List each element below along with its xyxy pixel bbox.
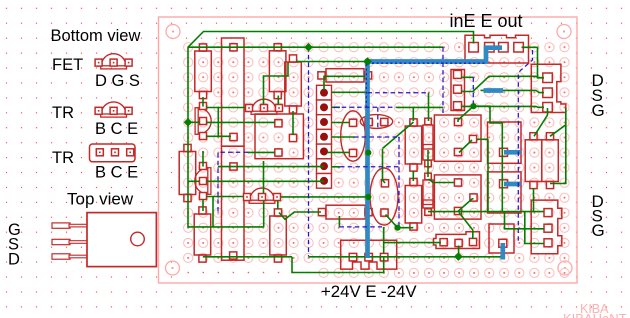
wire diag R10 bbox=[550, 125, 566, 137]
diode D5 bbox=[423, 118, 433, 167]
resistor R6 bbox=[270, 209, 287, 262]
capacitor tall T2 bbox=[222, 146, 245, 260]
wire CN3 pad2 diag bbox=[461, 76, 544, 91]
wire T2-bus167 bbox=[218, 166, 324, 168]
perfboard pad grid bbox=[184, 43, 570, 278]
blue dotted overlay v bbox=[365, 64, 367, 110]
wire blue-diag-R7 bbox=[383, 122, 414, 149]
wire drop R7 bbox=[412, 107, 414, 121]
resistor R1 bbox=[195, 44, 212, 99]
wire blue-capB bbox=[383, 149, 386, 183]
transistor X2 bbox=[488, 172, 522, 213]
wire dots stub4 bbox=[332, 136, 355, 138]
connector CN4 DSG bottom bbox=[531, 200, 562, 254]
junction capB bbox=[395, 225, 401, 231]
board outline bbox=[159, 17, 578, 283]
wire D4 down bbox=[263, 201, 265, 227]
svg-text:B C E: B C E bbox=[95, 164, 138, 182]
junction bus106 bbox=[470, 103, 476, 109]
wire dots stub1 bbox=[332, 91, 368, 93]
mounting hole H3 bbox=[166, 261, 180, 275]
blue trace X3 bbox=[500, 243, 505, 260]
wire bus90 right bbox=[503, 90, 544, 92]
svg-text:D: D bbox=[8, 251, 20, 269]
wire bus3 bbox=[296, 61, 368, 63]
svg-text:G: G bbox=[592, 221, 605, 240]
dashed net 10 bbox=[398, 137, 400, 227]
connector CN2 DSG top bbox=[531, 64, 566, 112]
resistor R9 bbox=[525, 133, 542, 189]
connector CN5 power bbox=[341, 240, 397, 269]
resistor R3 bbox=[285, 55, 302, 113]
junction bus2 bbox=[304, 43, 313, 52]
transistor X3 bbox=[489, 224, 514, 253]
wire to Q-D3 bbox=[202, 151, 204, 167]
wire R6-R12 bbox=[279, 212, 321, 219]
wire Q1-T1 bbox=[207, 135, 232, 137]
wire drop D5 bbox=[428, 93, 430, 121]
svg-text:TR: TR bbox=[52, 149, 74, 167]
wire Q2 base bbox=[188, 180, 199, 182]
ic U1 bbox=[255, 114, 303, 159]
wire CN2-R9 bbox=[534, 108, 548, 136]
wire relayB-HDR1 bbox=[459, 213, 473, 240]
wire IC1 pad1 bbox=[207, 121, 276, 123]
FET bottom-view symbol bbox=[95, 54, 132, 69]
wire bus211 bbox=[428, 211, 544, 213]
wire bottom U bbox=[292, 257, 384, 273]
svg-text:B C E: B C E bbox=[95, 120, 138, 138]
mounting hole H2 bbox=[557, 25, 571, 39]
blue trace stub E bbox=[484, 88, 504, 93]
transistor Q1 bbox=[195, 103, 211, 140]
dashed net 4 bbox=[368, 92, 429, 94]
transistor Q3 bbox=[246, 99, 283, 114]
resistor R5 bbox=[194, 207, 211, 262]
junction blue mid1 bbox=[365, 150, 371, 156]
svg-text:G: G bbox=[592, 101, 605, 120]
wire capB-junction bbox=[386, 215, 414, 228]
junction left bus bbox=[184, 118, 193, 127]
resistor R4 bbox=[179, 144, 196, 201]
dashed net 11 bbox=[518, 50, 532, 243]
dashed net 5 bbox=[334, 106, 396, 108]
wire dots stub6 bbox=[332, 166, 341, 168]
wire relayA right bbox=[477, 138, 488, 140]
wire D6-relayB bbox=[429, 179, 455, 183]
wire top bus bbox=[188, 32, 474, 48]
dashed net 2 bbox=[218, 152, 248, 215]
svg-text:D G S: D G S bbox=[95, 72, 140, 90]
wire CN1-CN2 bbox=[522, 47, 545, 78]
capacitor C2 oval bbox=[360, 115, 392, 129]
blue dotted overlay bbox=[372, 62, 486, 64]
blue trace main horizontal bbox=[368, 48, 503, 62]
resistor R8 bbox=[405, 178, 422, 230]
wire D3-down bbox=[212, 197, 214, 227]
wire D1 center bbox=[264, 63, 289, 105]
wire R3-IC1 bbox=[292, 111, 294, 135]
svg-text:+24V E -24V: +24V E -24V bbox=[321, 282, 417, 301]
wire dash5-relayA bbox=[396, 106, 443, 108]
resistor R12 bbox=[318, 205, 372, 219]
blue trace main vertical bbox=[365, 59, 370, 258]
wire bus106 bbox=[461, 105, 544, 108]
svg-text:inE E out: inE E out bbox=[450, 11, 523, 31]
wire bus90 left bbox=[481, 89, 485, 91]
wire dots stub2 bbox=[332, 106, 341, 108]
wire D4 left stub bbox=[207, 196, 244, 198]
header HDR1 bbox=[434, 232, 480, 249]
TR bottom-view symbol 1 bbox=[95, 102, 132, 117]
mounting hole H4 bbox=[558, 261, 572, 275]
TR bottom-view symbol 2 bbox=[90, 144, 136, 162]
relay K2 bbox=[434, 175, 481, 219]
wire diag relayA top bbox=[458, 106, 474, 122]
junction bus3 blue bbox=[363, 57, 372, 66]
svg-text:KIBAHaNT: KIBAHaNT bbox=[563, 311, 627, 318]
wire dash-CN5 bbox=[383, 227, 385, 253]
wire diode link bbox=[427, 150, 429, 177]
dashed net 1 bbox=[308, 47, 310, 256]
wire R2-D1 bbox=[277, 96, 279, 105]
wire D4-R6 bbox=[277, 201, 279, 210]
transistor X1 bbox=[488, 122, 522, 163]
junction bottom bus bbox=[454, 252, 463, 261]
dashed net 12 bbox=[472, 77, 474, 104]
dashed net 9 bbox=[340, 166, 399, 168]
dashed net 8 bbox=[354, 136, 399, 138]
wire dots stub3 bbox=[332, 122, 350, 124]
junction blue mid2 bbox=[365, 194, 371, 200]
wire IC1 pad3 bbox=[248, 151, 275, 153]
wire R12-dash bbox=[338, 216, 340, 227]
wire R1-Q1 bbox=[202, 97, 204, 107]
capacitor C1 bbox=[341, 111, 366, 161]
mounting hole H1 bbox=[166, 25, 180, 39]
wire dots stub5 bbox=[327, 151, 350, 153]
relay K1 bbox=[434, 115, 481, 161]
svg-text:FET: FET bbox=[52, 56, 83, 74]
wire D3-R5 bbox=[202, 199, 204, 211]
wire left vertical bus bbox=[188, 47, 264, 227]
connector CN1 in-out bbox=[465, 35, 529, 63]
wire relayA diag bbox=[459, 140, 472, 153]
wire dot1-R11 bbox=[324, 76, 368, 90]
svg-text:Top view: Top view bbox=[67, 190, 134, 209]
wire R9 bottom bbox=[533, 188, 535, 212]
capacitor C3 bbox=[370, 168, 398, 225]
wire D4-blue bbox=[281, 196, 368, 198]
dashed net 7 bbox=[377, 107, 379, 130]
connector J1 filled pads bbox=[317, 85, 332, 188]
blue trace X1 bbox=[504, 150, 521, 155]
wire green V488 bbox=[487, 139, 489, 211]
capacitor tall T1 bbox=[222, 38, 245, 146]
blue trace X2 bbox=[504, 182, 521, 187]
connector CN3 bbox=[451, 70, 465, 111]
wire CN3 pad1 stub bbox=[461, 76, 473, 78]
resistor R11 bbox=[318, 69, 372, 82]
wire HDR1-diamond bbox=[458, 246, 460, 257]
dashed net 6 bbox=[442, 47, 444, 113]
wire bottom bus right bbox=[309, 256, 504, 258]
wire CN4 pad3 bbox=[525, 212, 544, 244]
wire bottom bus bbox=[203, 256, 292, 258]
diode D6 bbox=[423, 173, 433, 215]
wire X column bbox=[474, 106, 503, 211]
wire CN4 pad2 bbox=[505, 212, 545, 229]
wire Q1-D1 pad bbox=[206, 107, 245, 109]
transistor Q4 bbox=[244, 188, 281, 203]
wire right V565 bbox=[550, 108, 566, 184]
transistor Q2 bbox=[195, 163, 211, 200]
resistor R7 bbox=[405, 119, 422, 171]
svg-text:Bottom view: Bottom view bbox=[51, 27, 141, 45]
TO-220 package top view bbox=[52, 213, 156, 267]
wire Q1 link V bbox=[217, 108, 219, 137]
dashed net 1b bbox=[339, 226, 382, 228]
resistor R2 bbox=[269, 44, 286, 99]
wire bus2 bbox=[188, 46, 443, 48]
wire IC1-D4 bbox=[263, 161, 265, 194]
svg-text:TR: TR bbox=[52, 104, 74, 122]
wire R7-R8 bbox=[412, 171, 414, 181]
wire bus242 bbox=[384, 228, 441, 243]
wire to Q-D2 base bbox=[188, 121, 200, 123]
resistor R10 bbox=[542, 133, 559, 189]
wire bus181 bbox=[207, 180, 325, 182]
wire relayB diag up bbox=[458, 199, 474, 212]
